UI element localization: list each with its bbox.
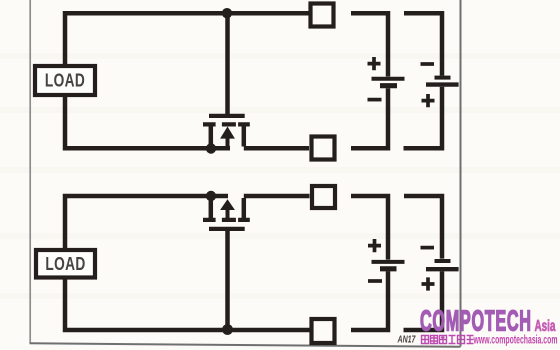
- wire: B2 bottom stub: [404, 87, 443, 148]
- label: B3 minus: [368, 279, 382, 283]
- connector J4: [312, 319, 335, 343]
- wire: circuit2 top rail left segment and drop to LOAD2: [65, 196, 228, 248]
- label: B1 minus: [368, 98, 382, 102]
- wire: B3 bottom to J4: [351, 271, 388, 330]
- svg-text:COMPOTECH: COMPOTECH: [420, 305, 532, 337]
- svg-text:AN17: AN17: [397, 333, 417, 345]
- figure frame left: [29, 0, 31, 344]
- svg-text:www.compotechasia.com: www.compotechasia.com: [473, 334, 558, 347]
- battery B2: [426, 78, 459, 85]
- wire: B4 bottom stub: [404, 271, 443, 330]
- wire: J3 to battery B3 top: [351, 196, 388, 260]
- connector J2: [312, 137, 335, 160]
- wire: circuit1 bottom rail right segment: [244, 146, 309, 151]
- watermark chinese tagline glyphs: [422, 336, 474, 344]
- wire: circuit2 top rail right segment: [244, 194, 310, 199]
- junction dot: Q2 gate tap on bottom rail: [222, 324, 233, 335]
- label: B2 plus: [422, 94, 435, 107]
- label: B4 minus: [421, 246, 435, 250]
- label: B1 plus: [368, 57, 381, 70]
- battery B1: [372, 79, 405, 86]
- mosfet Q1: [203, 116, 250, 148]
- label: B3 plus: [368, 239, 381, 252]
- wire: LOAD2 to circuit2 bottom rail: [65, 280, 310, 331]
- junction dot: Q1 gate tap on top rail: [222, 8, 232, 18]
- label: B4 plus: [422, 277, 435, 290]
- battery B4: [426, 261, 459, 269]
- wire: B1 bottom to J2: [351, 88, 388, 148]
- label: B2 minus: [421, 62, 435, 66]
- mosfet Q2: [203, 198, 250, 229]
- connector J1: [311, 4, 334, 27]
- svg-text:Asia: Asia: [535, 317, 557, 335]
- figure frame right: [460, 0, 462, 347]
- junction dot: Q2 drain tie on top rail: [206, 191, 216, 201]
- connector J3: [312, 186, 335, 208]
- svg-text:LOAD: LOAD: [45, 71, 85, 91]
- wire: circuit2 top stub to battery B4: [404, 196, 442, 259]
- svg-text:LOAD: LOAD: [45, 254, 85, 274]
- load LOAD1: [35, 66, 95, 95]
- wire: top stub to battery B2: [404, 13, 442, 75]
- wire: Q2 gate stem to circuit2 bottom rail: [225, 230, 230, 327]
- figure frame bottom: [30, 343, 461, 347]
- wire: Q1 gate stem to top rail: [225, 15, 230, 114]
- junction dot: Q1 source tie on bottom rail: [206, 143, 216, 153]
- wire: circuit1 top rail and drop to LOAD1: [65, 13, 309, 64]
- battery B3: [372, 262, 405, 269]
- wire: J1 to battery B1 top: [351, 13, 388, 76]
- load LOAD2: [36, 250, 95, 278]
- wire: LOAD1 to circuit1 bottom rail left segment: [65, 97, 230, 148]
